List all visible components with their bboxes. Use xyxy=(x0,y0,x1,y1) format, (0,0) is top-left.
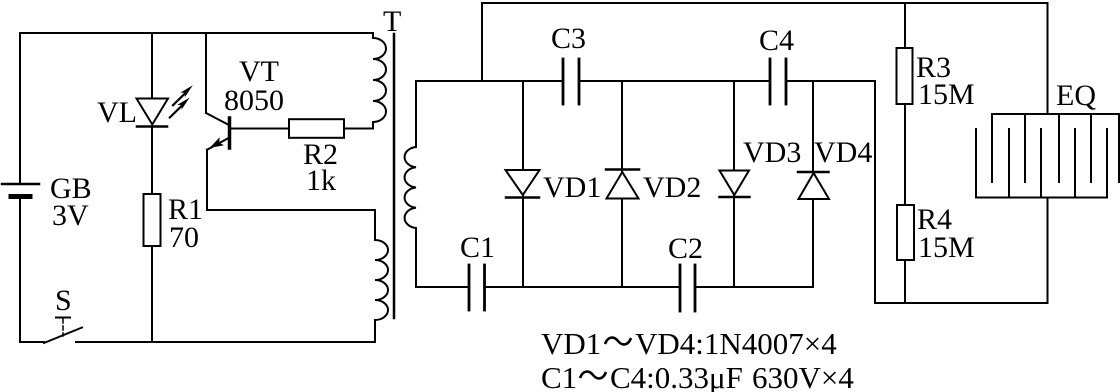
wire R3 top lead xyxy=(904,3,906,48)
wire bottom rail xyxy=(76,341,375,343)
LED VL light arrow 2 xyxy=(170,98,190,118)
switch S linkage xyxy=(56,318,70,337)
diode VD2 branch wire xyxy=(621,81,623,287)
battery GB plate + xyxy=(2,183,39,186)
svg-text:VD1: VD1 xyxy=(541,326,601,361)
wire node F bottom xyxy=(695,286,813,288)
svg-text:C2: C2 xyxy=(668,232,703,265)
svg-text:EQ: EQ xyxy=(1056,79,1096,112)
svg-text:T: T xyxy=(383,5,401,38)
svg-text:15M: 15M xyxy=(918,78,975,111)
wire VL branch top xyxy=(151,33,153,98)
wire output drop xyxy=(874,81,876,303)
transformer T secondary winding xyxy=(405,81,416,287)
svg-text:8050: 8050 xyxy=(224,84,284,117)
wire node E bottom xyxy=(485,286,681,288)
svg-text:VD1: VD1 xyxy=(543,171,601,204)
wire node A riser xyxy=(481,3,483,81)
capacitor C3 xyxy=(563,59,579,104)
wire node B xyxy=(579,80,770,82)
LED VL light arrow 1 xyxy=(173,85,193,105)
transformer T primary winding xyxy=(375,210,388,342)
note capacitors line xyxy=(541,360,854,392)
transformer T feedback winding xyxy=(373,33,386,129)
wire VL to R1 xyxy=(151,127,153,195)
note diodes line xyxy=(541,326,837,361)
svg-text:VD3: VD3 xyxy=(743,136,801,169)
transistor VT base lead xyxy=(230,128,290,130)
svg-text:C3: C3 xyxy=(551,22,586,55)
diode VD3 branch wire xyxy=(733,81,735,287)
wire R4 bottom lead xyxy=(904,260,906,303)
wire R2 to feedback winding xyxy=(344,128,373,130)
svg-text:70: 70 xyxy=(169,221,199,254)
transformer T core xyxy=(393,34,396,318)
electrode grid EQ top comb xyxy=(992,114,1119,182)
diode VD1 branch wire xyxy=(522,81,524,287)
capacitor C1 xyxy=(469,265,485,310)
svg-text:1k: 1k xyxy=(306,164,336,197)
transistor VT emitter diagonal xyxy=(207,137,230,150)
wire collector lead xyxy=(205,33,207,113)
svg-text:VL: VL xyxy=(97,96,137,129)
svg-text:VD4:1N4007×4: VD4:1N4007×4 xyxy=(635,326,837,361)
svg-text:15M: 15M xyxy=(918,231,975,264)
wire battery bottom lead xyxy=(19,197,21,343)
diode VD1 xyxy=(506,170,540,198)
transistor Q1 VT collector diagonal xyxy=(206,113,229,125)
svg-text:C1: C1 xyxy=(460,231,495,264)
wire top rail left xyxy=(20,32,373,34)
diode VD4 xyxy=(798,172,829,199)
resistor R1 xyxy=(144,194,161,246)
wire node A xyxy=(416,80,563,82)
wire battery top lead xyxy=(19,33,21,184)
diode VD3 xyxy=(720,171,750,198)
svg-text:S: S xyxy=(55,284,72,317)
LED VL triangle xyxy=(137,99,169,125)
battery GB plate - xyxy=(11,194,30,199)
LED VL cathode bar xyxy=(137,125,167,128)
wire EQ top feed xyxy=(1047,3,1049,114)
wire node C xyxy=(786,80,875,82)
wire bottom rail to switch xyxy=(20,341,44,343)
diode VD2 xyxy=(606,170,639,199)
wire node D bottom xyxy=(416,286,469,288)
switch S blade xyxy=(44,328,82,344)
resistor R2 xyxy=(289,119,344,138)
svg-text:3V: 3V xyxy=(52,199,89,232)
svg-text:C4: C4 xyxy=(759,24,794,57)
diode VD4 branch wire xyxy=(812,81,814,287)
wire R1 to bottom rail xyxy=(151,246,153,342)
svg-text:VD2: VD2 xyxy=(643,171,701,204)
capacitor C4 xyxy=(770,59,786,104)
resistor R3 xyxy=(897,48,913,104)
svg-text:C4:0.33μF: C4:0.33μF xyxy=(610,360,743,392)
transistor VT base bar xyxy=(228,118,232,148)
capacitor C2 xyxy=(680,265,695,311)
wire top rail xyxy=(482,2,1048,4)
resistor R4 xyxy=(897,205,914,260)
svg-text:VD4: VD4 xyxy=(814,136,872,169)
wire emitter lead xyxy=(207,150,375,210)
svg-text:630V×4: 630V×4 xyxy=(752,360,854,392)
wire EQ bottom feed xyxy=(1047,198,1049,304)
wire R3 to R4 xyxy=(904,104,906,205)
electrode grid EQ bottom comb xyxy=(976,129,1107,198)
wire output bottom xyxy=(875,302,1048,304)
svg-text:C1: C1 xyxy=(541,360,577,392)
